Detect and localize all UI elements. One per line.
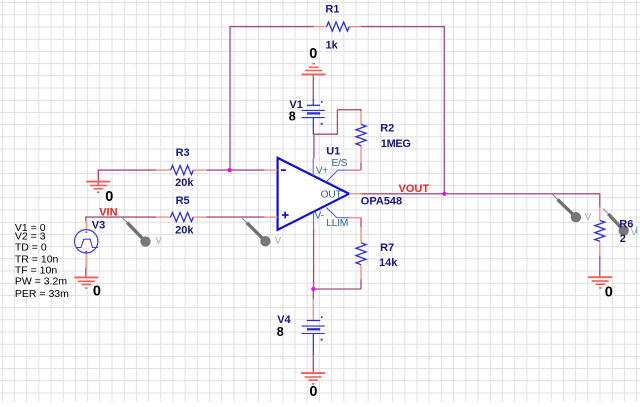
svg-text:E/S: E/S [332,158,348,169]
node junction at V4/R7 [311,287,315,291]
voltage probe on R6 [603,209,638,238]
svg-text:U1: U1 [326,146,340,158]
wire bottom node to V4 [312,289,314,299]
wire VIN V3 to R5 [86,216,156,221]
resistor R1 [314,22,361,31]
wire ground to R3 input [98,169,156,176]
wire V4 bottom to ground [312,355,314,369]
wire V1 branch to R2 top [314,109,361,135]
wire R2 bottom to E/S pin [350,163,361,171]
op-amp V+ pin line [312,158,314,176]
svg-text:TD = 0: TD = 0 [15,241,47,253]
op-amp OUT pin [349,193,361,195]
svg-text:OUT: OUT [321,190,343,201]
op-amp plus input pin [264,216,277,218]
svg-text:R6: R6 [619,218,633,230]
svg-text:R3: R3 [176,147,190,159]
wire right vertical from top to VOUT node [443,26,445,194]
wire R3 to op-amp minus node [206,169,264,171]
svg-text:20k: 20k [175,224,194,236]
wire R5 to op-amp plus [206,216,264,218]
wire top feedback right segment [361,26,445,28]
svg-text:OPA548: OPA548 [361,195,402,207]
ground left (R3 input) [86,170,110,192]
resistor R5 [156,213,206,222]
svg-text:0: 0 [309,46,317,62]
ground below V4 [301,368,325,384]
svg-text:20k: 20k [175,177,194,189]
voltage source V3 (pulse) [75,221,99,268]
op-amp LLIM pin [326,208,361,218]
voltage probe on VOUT [552,194,591,223]
resistor R7 [356,227,366,279]
svg-text:0: 0 [93,284,101,300]
ground below R6 [588,273,612,288]
resistor R3 [156,166,206,175]
svg-text:8: 8 [277,325,284,339]
wire R6 bottom to ground [599,255,601,273]
wire OUT to R6 top [361,193,600,207]
node junction at R3/feedback [228,168,232,172]
svg-text:V: V [275,235,282,246]
svg-text:V-: V- [315,210,324,221]
resistor R2 [356,111,366,163]
ground top (above V1) [302,64,326,75]
svg-text:1MEG: 1MEG [381,138,411,150]
svg-text:VOUT: VOUT [399,183,430,195]
svg-text:PW = 3.2m: PW = 3.2m [15,276,67,288]
svg-text:0: 0 [309,384,317,400]
svg-text:0: 0 [605,285,613,301]
svg-text:TF = 10n: TF = 10n [15,265,57,277]
V3 pulse parameters text [15,222,69,300]
wire LLIM to R7 top [360,218,362,228]
wire left vertical from top to R3 node [229,26,231,170]
op-amp minus mark [281,169,286,171]
svg-text:V+: V+ [316,166,329,177]
svg-text:0: 0 [105,189,113,205]
op-amp minus input pin [264,169,277,171]
op-amp plus mark [282,212,289,219]
svg-text:VIN: VIN [99,207,117,219]
battery V1 [302,99,325,134]
resistor R6 [595,207,605,256]
wire top feedback left segment [230,26,314,28]
svg-text:8: 8 [289,109,296,123]
svg-text:1k: 1k [326,39,339,51]
op-amp U1 OPA548 triangle [278,158,349,230]
op-amp V- pin line [313,212,315,229]
wire V- pin down to bottom node [313,229,315,289]
svg-text:R7: R7 [380,242,394,254]
wire top ground to V1 [312,75,314,99]
svg-text:V3: V3 [92,220,105,232]
node junction at VOUT [442,192,446,196]
svg-text:V: V [585,212,592,223]
wire V3 bottom to ground [85,268,87,273]
svg-text:R1: R1 [325,4,339,16]
wire V1 node down to V+ pin [313,134,315,158]
svg-text:V: V [155,236,162,247]
op-amp E/S pin [326,170,362,182]
wire R7 bottom to bottom node [313,279,361,289]
svg-text:2: 2 [620,233,626,245]
svg-text:LLIM: LLIM [326,218,348,229]
svg-text:14k: 14k [379,257,398,269]
ground below V3 [74,272,98,288]
svg-text:R5: R5 [176,195,190,207]
svg-text:PER = 33m: PER = 33m [15,288,69,300]
battery V4 [302,299,325,355]
voltage probe on op-amp plus input [242,217,282,246]
svg-text:R2: R2 [380,123,394,135]
cursor mark right edge [636,227,638,234]
voltage probe on VIN [122,217,162,247]
